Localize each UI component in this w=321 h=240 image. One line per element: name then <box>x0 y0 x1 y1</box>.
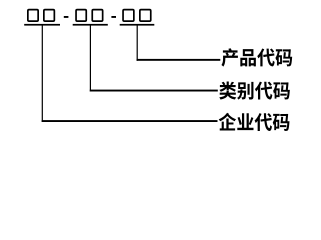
leader line: category boxes to label (horizontal) <box>90 90 218 92</box>
label: category code 类别代码 <box>219 81 290 99</box>
label: enterprise code 企业代码 <box>219 113 290 131</box>
underline under category boxes <box>73 24 108 26</box>
underline under enterprise boxes <box>24 24 60 26</box>
code box 5 (product digit 1) <box>123 10 134 22</box>
code box 2 (enterprise digit 2) <box>44 10 55 22</box>
label: product code 产品代码 <box>222 48 293 66</box>
leader line: category boxes to label (vertical) <box>90 25 91 91</box>
leader line: product boxes to label (horizontal) <box>137 59 221 61</box>
code box 3 (category digit 1) <box>76 10 86 22</box>
leader line: enterprise boxes to label (vertical) <box>42 25 43 122</box>
coding scheme diagram <box>0 0 321 142</box>
code box 4 (category digit 2) <box>92 10 102 22</box>
code box 1 (enterprise digit 1) <box>28 10 38 22</box>
separator dash 2 <box>111 16 116 18</box>
code box 6 (product digit 2) <box>140 10 151 22</box>
separator dash 1 <box>64 16 69 18</box>
leader line: enterprise boxes to label (horizontal) <box>42 120 218 122</box>
leader line: product boxes to label (vertical) <box>137 25 138 61</box>
underline under product boxes <box>120 24 155 26</box>
